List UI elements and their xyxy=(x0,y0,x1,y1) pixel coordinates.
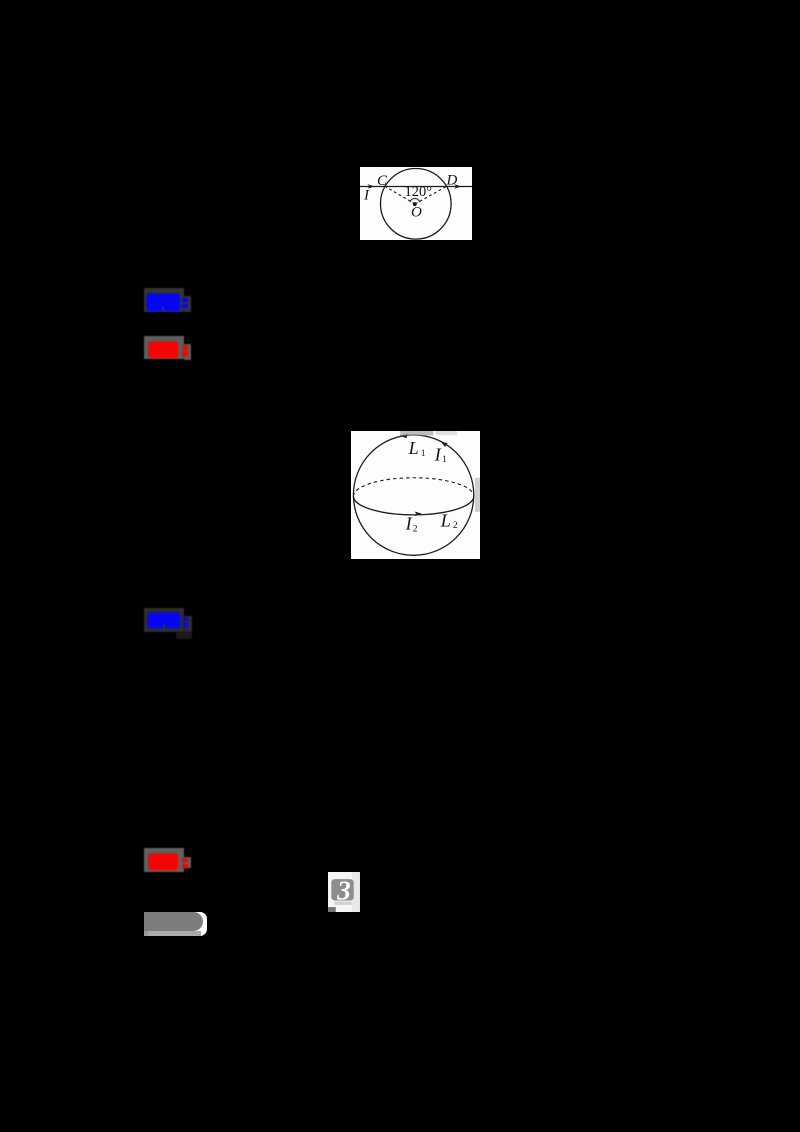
svg-text:2: 2 xyxy=(413,525,418,535)
arrow at top of loop L1 xyxy=(400,434,408,439)
figure: straight wire through circular field region, 120 deg xyxy=(360,167,472,240)
label: red answer 2 xyxy=(144,848,184,872)
arrow on wire left xyxy=(367,184,374,189)
svg-text:1: 1 xyxy=(421,449,426,459)
svg-text:2: 2 xyxy=(453,521,458,531)
svg-text:L: L xyxy=(440,511,451,531)
arrow on wire right xyxy=(454,184,461,189)
svg-text:O: O xyxy=(411,205,422,221)
svg-text:I: I xyxy=(363,187,370,203)
svg-text:120°: 120° xyxy=(404,184,432,200)
svg-text:1: 1 xyxy=(442,455,447,465)
dashed radius O-C xyxy=(385,187,415,205)
arrow I2 on loop L2 xyxy=(415,512,422,517)
svg-text:I: I xyxy=(405,514,413,534)
label: blue analysis 2 xyxy=(144,608,184,632)
svg-text:3: 3 xyxy=(336,875,351,905)
jpeg smudge top edge xyxy=(401,431,434,436)
dashed radius O-D xyxy=(415,187,446,205)
page number 3 badge xyxy=(328,872,360,913)
wire CD xyxy=(360,186,472,188)
center dot O xyxy=(412,202,416,206)
svg-text:L: L xyxy=(408,438,419,458)
equator front (solid) loop L2 xyxy=(354,497,474,516)
svg-text:I: I xyxy=(434,445,442,465)
arrow I1 on sphere outline xyxy=(441,442,448,447)
sphere outline xyxy=(354,435,474,555)
figure: sphere with two current loops L1 L2 xyxy=(351,431,480,559)
angle arc at O xyxy=(410,199,420,203)
equator back (dashed) xyxy=(354,478,474,497)
field boundary circle O xyxy=(380,169,451,240)
jpeg smudge right edge xyxy=(475,478,480,512)
svg-text:C: C xyxy=(377,173,388,189)
label: blue analysis 1 xyxy=(144,288,184,312)
gray pill button xyxy=(144,912,207,936)
label: red answer 1 xyxy=(144,336,184,360)
svg-text:D: D xyxy=(445,173,457,189)
